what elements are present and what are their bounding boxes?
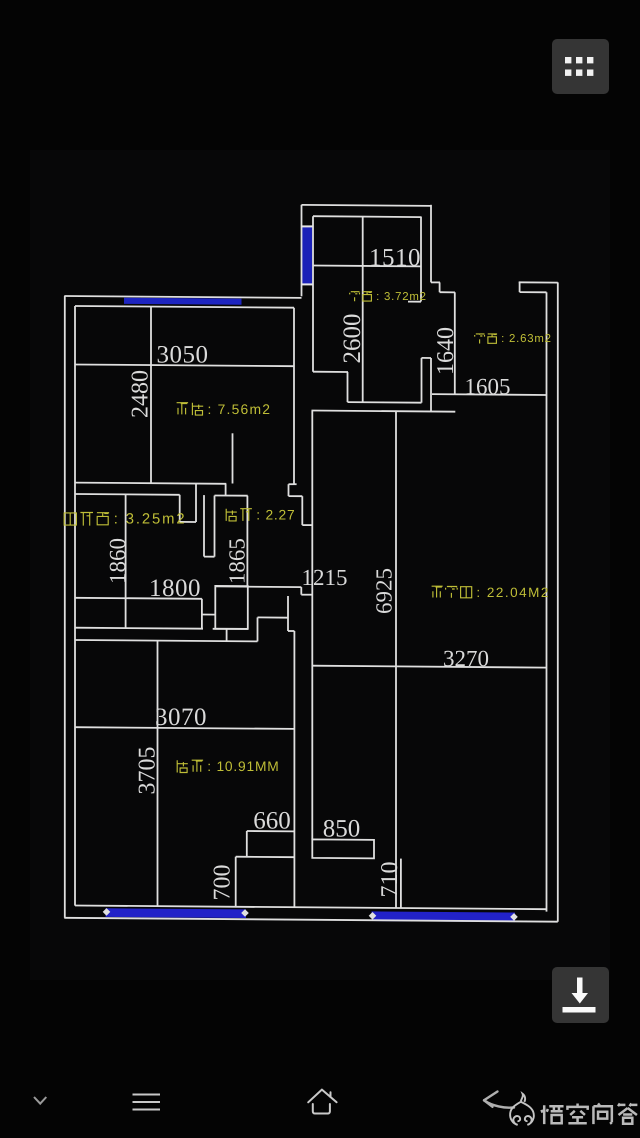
window end diamond: [510, 913, 518, 921]
dim line 3270: [312, 666, 546, 668]
wall jamb short v: [232, 433, 234, 483]
watermark wukong logo cloud: [510, 1094, 534, 1125]
wall closet v 3705: [157, 641, 159, 906]
svg-text:: 22.04M2: : 22.04M2: [476, 585, 550, 600]
wall master right v: [293, 631, 295, 907]
svg-text:2600: 2600: [339, 314, 366, 364]
wall hall step v: [347, 372, 349, 402]
box 850: [312, 839, 374, 858]
svg-text:3270: 3270: [443, 646, 489, 671]
svg-text:1510: 1510: [369, 245, 421, 272]
wall corr jamb v: [288, 484, 290, 496]
wall master top upper a: [75, 628, 203, 629]
wall bottom outer: [64, 918, 558, 922]
wall left inner v: [74, 306, 76, 906]
window end diamond: [241, 909, 249, 917]
dim line 1510: [313, 265, 421, 268]
wall top-right step v: [519, 282, 521, 292]
dim line 3070: [75, 727, 294, 729]
wall bedroom2 right v: [293, 308, 295, 484]
dim line 1865 vertical: [246, 496, 248, 586]
wall bath stub v2: [214, 496, 216, 557]
svg-text:3050: 3050: [157, 341, 209, 368]
wall bath jamb v: [179, 495, 181, 522]
svg-text:: 3.25m2: : 3.25m2: [114, 511, 187, 527]
wall master top upper b: [213, 628, 248, 630]
window cap bottom: [301, 283, 313, 285]
dim line 2480 vertical: [150, 307, 152, 483]
wall bath stub v1: [203, 495, 205, 556]
dim line 700 vertical: [235, 857, 237, 907]
svg-text:710: 710: [377, 862, 403, 898]
svg-text:: 2.27: : 2.27: [256, 508, 295, 523]
wall master top lower: [75, 640, 258, 641]
svg-text:: 10.91MM: : 10.91MM: [207, 759, 279, 774]
dim line 1860 vertical: [125, 494, 127, 628]
svg-text:: 7.56m2: : 7.56m2: [208, 401, 272, 417]
wall nook h: [258, 616, 289, 618]
dim line 660: [247, 830, 295, 832]
room label zoulang 2.27: [226, 509, 237, 521]
svg-text:850: 850: [323, 816, 361, 843]
wall bottom inner: [75, 906, 547, 910]
nav hamburger menu: [133, 1095, 161, 1110]
wall door jamb v: [201, 599, 203, 629]
svg-text:660: 660: [253, 808, 291, 835]
dim line 1215 + block top: [215, 585, 301, 588]
wall corr2 h: [288, 630, 294, 632]
wall bath jamb h: [180, 521, 196, 523]
wall foyer box top: [312, 411, 456, 412]
nav chevron down: [34, 1097, 46, 1104]
wall top-right outer h: [519, 281, 558, 283]
wall master jog v: [226, 629, 228, 641]
svg-text:1215: 1215: [302, 565, 348, 590]
wall corr step h: [302, 524, 312, 526]
wall step h: [431, 281, 440, 283]
svg-text:1640: 1640: [433, 327, 459, 375]
svg-text:6925: 6925: [372, 568, 397, 614]
room label ciwo 7.56m2: [177, 403, 189, 415]
room label zhuwo 10.91MM: [177, 760, 188, 772]
wall corr v: [301, 496, 303, 525]
svg-text:700: 700: [210, 865, 236, 901]
wall top-room inner left: [312, 216, 314, 372]
door block: [215, 586, 248, 629]
wall top-room top outer: [302, 205, 432, 206]
watermark text wukong wenda: [541, 1105, 563, 1124]
window blue bottom-left: [106, 908, 247, 918]
wall top-room right outer: [430, 205, 432, 283]
svg-text:: 2.63m2: : 2.63m2: [501, 333, 552, 345]
dim line 2600 vertical: [362, 217, 364, 403]
svg-text:1865: 1865: [225, 538, 250, 584]
wall bath stub bottom: [204, 556, 215, 558]
wall right inner v: [546, 292, 548, 911]
wall jog h3: [301, 594, 312, 596]
wall hall top h: [422, 357, 432, 359]
wall corr2 v: [287, 596, 289, 631]
room label weishengjian 3.25m2: [64, 513, 76, 525]
room label kecanting 22.04M2: [432, 586, 443, 597]
wall corr jamb h2: [289, 495, 303, 497]
wall bath top inner h: [75, 493, 180, 496]
wall nook v: [257, 617, 259, 641]
svg-text:1800: 1800: [149, 575, 201, 602]
wall jog h: [215, 495, 248, 497]
window cap top: [301, 225, 313, 227]
wall top-room inner right: [420, 217, 422, 302]
wall right outer v: [557, 282, 559, 921]
wall bedroom2 inner top: [75, 306, 294, 308]
svg-text:1605: 1605: [465, 374, 511, 399]
wall stub h: [408, 301, 421, 303]
svg-text:3705: 3705: [135, 747, 161, 795]
wall top-room left outer: [301, 205, 303, 296]
dim line 3050: [75, 365, 294, 367]
wall living left long v: [311, 411, 313, 840]
window blue bottom-middle: [372, 911, 516, 922]
wall bath jamb v2: [195, 484, 197, 523]
wall left top outer h: [64, 296, 301, 298]
wall jog v2: [300, 587, 302, 595]
svg-text:2480: 2480: [128, 370, 154, 418]
window end diamond: [369, 912, 377, 920]
wall hall outer v: [430, 358, 432, 411]
wall door jamb h: [202, 614, 215, 616]
wall hall bottom h: [348, 401, 422, 404]
watermark back arrow: [484, 1092, 514, 1108]
dim line 1605: [432, 393, 547, 396]
window end diamond: [103, 908, 111, 916]
room label xuanguan 3.72m2: [350, 291, 360, 301]
wall top-right inner h: [520, 291, 547, 293]
wall step660 v: [246, 831, 248, 857]
wall step h2: [440, 291, 455, 293]
dim line 710 vertical: [400, 859, 402, 908]
wall top-room inner top: [313, 215, 421, 218]
wall step v: [439, 282, 441, 292]
wall jog v: [225, 484, 227, 496]
download button bottom right: [552, 967, 609, 1023]
window blue horizontal top-left: [124, 298, 242, 305]
svg-text:: 3.72m2: : 3.72m2: [376, 291, 427, 303]
window blue vertical top room: [302, 227, 312, 284]
wall left outer v: [64, 296, 66, 918]
grid menu button top right: [552, 39, 609, 94]
nav home icon: [308, 1090, 336, 1114]
wall hall step h: [313, 371, 348, 373]
wall corr jamb h: [289, 483, 297, 485]
wall hall right v: [421, 358, 423, 403]
dim line 1800: [75, 598, 202, 599]
dim line 1640 vertical: [454, 292, 456, 394]
room label xuanguan 2.63m2: [475, 333, 485, 343]
wall bedroom2 bottom h: [75, 483, 226, 484]
svg-text:3070: 3070: [155, 704, 207, 731]
svg-text:1860: 1860: [105, 538, 130, 584]
dim line 6925 vertical: [395, 411, 397, 908]
wall step660 h: [236, 856, 295, 859]
